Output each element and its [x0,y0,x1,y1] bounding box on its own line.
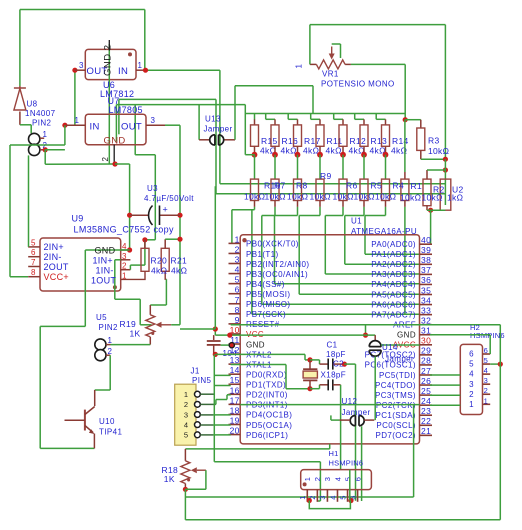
svg-text:1N4007: 1N4007 [25,109,56,118]
svg-text:4: 4 [235,265,240,275]
svg-text:4: 4 [484,366,488,375]
svg-text:R11: R11 [327,136,343,146]
svg-text:3: 3 [122,252,127,261]
svg-text:J1: J1 [191,367,200,376]
svg-text:R1: R1 [411,181,422,191]
svg-text:1IN+: 1IN+ [93,256,113,266]
svg-text:PD6(ICP1): PD6(ICP1) [246,431,288,440]
svg-text:PB5(MOSI): PB5(MOSI) [246,290,291,299]
svg-text:5: 5 [184,431,188,440]
svg-text:25: 25 [421,386,431,396]
svg-text:27: 27 [421,366,431,376]
svg-text:1: 1 [184,390,188,399]
svg-text:4kΩ: 4kΩ [151,266,167,276]
svg-text:PD5(OC1A): PD5(OC1A) [246,421,292,430]
svg-text:4: 4 [184,420,188,429]
svg-text:R3: R3 [428,136,439,146]
svg-text:PD7(OC2): PD7(OC2) [375,431,416,440]
svg-text:GND: GND [95,246,116,256]
svg-text:U5: U5 [96,313,107,322]
svg-text:1: 1 [298,495,307,499]
svg-text:29: 29 [421,346,431,356]
svg-text:Jamper: Jamper [385,355,414,364]
svg-text:R20: R20 [151,256,168,266]
svg-text:3: 3 [469,380,474,389]
svg-text:U1: U1 [351,217,362,226]
svg-text:IN: IN [90,122,100,133]
svg-text:PA1(ADC1): PA1(ADC1) [371,250,416,259]
svg-text:C2: C2 [333,360,344,369]
svg-text:2OUT: 2OUT [44,262,69,272]
svg-text:6: 6 [469,350,474,359]
svg-text:7: 7 [31,258,36,267]
svg-text:HSMPIN6: HSMPIN6 [329,459,364,468]
svg-text:2IN-: 2IN- [44,252,62,262]
svg-text:14: 14 [230,365,240,375]
svg-text:8: 8 [235,305,240,315]
svg-text:2: 2 [313,477,322,481]
svg-text:R4: R4 [393,181,404,191]
svg-text:1OUT: 1OUT [91,275,116,285]
svg-text:4: 4 [122,242,127,251]
svg-text:R9: R9 [320,171,331,181]
svg-text:4.7µF/50Volt: 4.7µF/50Volt [144,194,194,203]
svg-text:2IN+: 2IN+ [44,242,64,252]
svg-text:1: 1 [108,336,113,345]
svg-text:5: 5 [338,495,347,499]
svg-text:28: 28 [421,356,431,366]
svg-text:2: 2 [101,157,110,162]
svg-text:Jamper: Jamper [342,408,371,417]
svg-text:38: 38 [421,255,431,265]
svg-text:3: 3 [79,61,84,70]
svg-text:R16: R16 [282,136,299,146]
svg-text:PB3(OC0/AIN1): PB3(OC0/AIN1) [246,270,308,279]
svg-text:35: 35 [421,285,431,295]
svg-text:1: 1 [295,64,304,69]
svg-text:20: 20 [230,426,240,436]
svg-text:34: 34 [421,295,431,305]
svg-text:6: 6 [31,248,36,257]
svg-text:PA7(ADC7): PA7(ADC7) [371,310,416,319]
svg-text:26: 26 [421,376,431,386]
svg-text:U14: U14 [382,343,398,352]
svg-text:R15: R15 [261,136,278,146]
svg-text:10kΩ: 10kΩ [333,192,354,202]
svg-text:R12: R12 [350,136,367,146]
svg-text:1: 1 [235,234,240,244]
svg-text:1: 1 [75,116,80,125]
svg-text:10kΩ: 10kΩ [265,192,286,202]
svg-text:6: 6 [235,285,240,295]
svg-text:3: 3 [151,116,156,125]
svg-text:39: 39 [421,245,431,255]
svg-text:1K: 1K [130,329,141,339]
svg-text:OUT: OUT [121,122,142,133]
svg-text:23: 23 [421,406,431,416]
svg-text:PB1(T1): PB1(T1) [246,250,279,259]
svg-text:36: 36 [421,275,431,285]
svg-text:PD0(RXD): PD0(RXD) [246,370,287,379]
svg-text:ATMEGA16A-PU: ATMEGA16A-PU [351,227,417,236]
svg-text:R19: R19 [120,319,137,329]
svg-text:9: 9 [235,315,240,325]
svg-text:IN: IN [118,66,128,77]
svg-text:1: 1 [484,396,488,405]
svg-text:PA6(ADC6): PA6(ADC6) [371,300,416,309]
svg-text:PC3(TMS): PC3(TMS) [375,391,416,400]
svg-text:16: 16 [230,385,240,395]
svg-text:GND: GND [397,331,416,340]
svg-text:3: 3 [484,376,488,385]
svg-text:1: 1 [138,61,143,70]
svg-text:TIP41: TIP41 [99,428,122,437]
svg-text:4: 4 [333,477,342,481]
svg-text:R13: R13 [371,136,388,146]
svg-text:2: 2 [235,244,240,254]
svg-text:PB0(XCK/T0): PB0(XCK/T0) [246,240,299,249]
svg-text:PC2(TCK): PC2(TCK) [376,401,416,410]
svg-text:17: 17 [230,395,240,405]
svg-text:LM358NG_C7552 copy: LM358NG_C7552 copy [74,225,175,235]
svg-text:5: 5 [484,356,488,365]
svg-text:10kΩ: 10kΩ [287,192,308,202]
svg-text:10kΩ: 10kΩ [375,192,396,202]
svg-text:3: 3 [184,410,188,419]
svg-text:U3: U3 [147,184,158,193]
svg-text:R8: R8 [296,181,307,191]
svg-text:PIN2: PIN2 [32,119,52,128]
svg-text:10kΩ: 10kΩ [400,193,421,203]
svg-text:40: 40 [421,235,431,245]
svg-text:PB4(SS#): PB4(SS#) [246,280,285,289]
svg-text:10kΩ: 10kΩ [310,192,331,202]
svg-text:10kΩ: 10kΩ [422,193,443,203]
svg-text:R7: R7 [274,181,285,191]
svg-text:PA5(ADC5): PA5(ADC5) [371,290,416,299]
svg-text:H1: H1 [329,449,339,458]
svg-text:PA0(ADC0): PA0(ADC0) [371,240,416,249]
svg-text:7: 7 [235,295,240,305]
svg-text:6: 6 [353,477,362,481]
svg-text:VCC+: VCC+ [44,272,69,282]
svg-text:22: 22 [421,416,431,426]
svg-text:PD1(TXD): PD1(TXD) [246,381,286,390]
svg-text:18: 18 [230,405,240,415]
svg-text:PD4(OC1B): PD4(OC1B) [246,411,292,420]
svg-text:24: 24 [421,396,431,406]
svg-text:R6: R6 [346,181,357,191]
svg-text:18pF: 18pF [326,350,346,359]
svg-text:PB7(SCK): PB7(SCK) [246,310,286,319]
svg-text:U8: U8 [27,100,38,109]
svg-text:PD2(INT0): PD2(INT0) [246,391,288,400]
svg-text:1IN-: 1IN- [96,266,114,276]
svg-text:10kΩ: 10kΩ [354,192,375,202]
svg-text:4kΩ: 4kΩ [171,266,187,276]
svg-text:POTENSIO MONO: POTENSIO MONO [321,79,395,88]
svg-text:6: 6 [484,346,488,355]
svg-text:X18pF: X18pF [321,371,347,380]
svg-text:R14: R14 [392,136,409,146]
svg-text:5: 5 [235,275,240,285]
svg-text:10kΩ: 10kΩ [244,192,265,202]
svg-text:PB6(MISO): PB6(MISO) [246,300,291,309]
svg-text:U10: U10 [99,417,115,426]
svg-text:PC5(TDI): PC5(TDI) [379,371,416,380]
svg-text:4: 4 [469,370,474,379]
svg-text:GND: GND [104,135,126,146]
svg-text:GND: GND [246,340,265,349]
svg-text:VR1: VR1 [322,70,339,79]
svg-text:5: 5 [343,477,352,481]
svg-text:2: 2 [469,390,474,399]
svg-text:GND 2: GND 2 [103,44,114,76]
svg-text:PA2(ADC2): PA2(ADC2) [371,260,416,269]
svg-text:1: 1 [469,400,474,409]
svg-text:8: 8 [31,268,36,277]
svg-text:21: 21 [421,426,431,436]
svg-text:3: 3 [318,495,327,499]
svg-text:33: 33 [421,305,431,315]
svg-text:10kΩ: 10kΩ [428,146,449,156]
svg-text:104: 104 [223,349,238,358]
svg-text:PB2(INT2/AIN0): PB2(INT2/AIN0) [246,260,309,269]
svg-text:R17: R17 [304,136,321,146]
svg-text:C1: C1 [327,341,338,350]
svg-text:19: 19 [230,415,240,425]
svg-text:U13: U13 [205,115,221,124]
svg-text:5: 5 [469,360,474,369]
svg-text:Jamper: Jamper [204,125,233,134]
svg-text:2: 2 [184,400,188,409]
svg-text:LM7805: LM7805 [109,105,143,115]
svg-text:+: + [163,205,168,215]
svg-text:37: 37 [421,265,431,275]
svg-text:3: 3 [323,477,332,481]
svg-text:R5: R5 [371,181,382,191]
svg-text:PIN2: PIN2 [99,323,119,332]
svg-text:31: 31 [421,326,431,336]
svg-text:1K: 1K [164,474,175,484]
svg-text:15: 15 [230,375,240,385]
svg-text:PA3(ADC3): PA3(ADC3) [371,270,416,279]
svg-text:30: 30 [421,336,431,346]
svg-text:PC4(TDO): PC4(TDO) [375,381,416,390]
svg-text:U9: U9 [72,214,84,224]
svg-text:5: 5 [31,238,36,247]
svg-text:1: 1 [303,477,312,481]
svg-text:2: 2 [122,262,127,271]
svg-text:PC1(SDA): PC1(SDA) [375,411,416,420]
svg-text:1kΩ: 1kΩ [447,193,463,203]
svg-text:3: 3 [235,255,240,265]
svg-text:2: 2 [484,386,488,395]
svg-text:4: 4 [328,495,337,499]
svg-text:R21: R21 [171,256,188,266]
svg-text:PA4(ADC4): PA4(ADC4) [371,280,416,289]
svg-text:PC0(SCL): PC0(SCL) [376,421,416,430]
